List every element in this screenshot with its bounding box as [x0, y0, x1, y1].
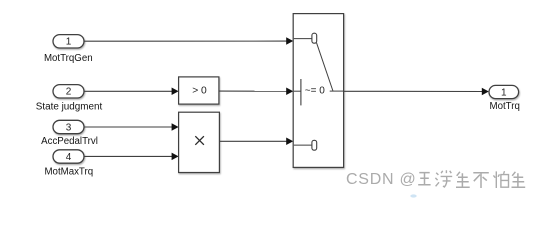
svg-text:CSDN @: CSDN @ — [346, 171, 417, 188]
switch input1 internal stub — [294, 33, 317, 43]
switch input3 internal stub — [294, 140, 317, 150]
watermark glyph fu (浮) — [435, 170, 452, 187]
inport 1 (MotTrqGen) — [53, 35, 84, 48]
svg-text:4: 4 — [66, 152, 72, 163]
svg-text:3: 3 — [66, 122, 72, 133]
wire switch to outport — [344, 88, 489, 96]
wire inport2 to compare block — [84, 88, 179, 96]
svg-text:1: 1 — [501, 87, 507, 98]
watermark glyph bu (不) — [473, 173, 489, 188]
watermark glyph sheng2 (生) — [512, 172, 526, 187]
wire inport1 to switch input1 — [84, 37, 293, 45]
svg-text:~= 0: ~= 0 — [305, 86, 325, 97]
watermark CSDN @ — [346, 171, 417, 188]
inport 3 (AccPedalTrvl) — [53, 120, 84, 133]
wire inport3 to product block — [84, 123, 179, 131]
cursor smudge — [410, 194, 416, 197]
switch output internal stub — [330, 90, 343, 92]
watermark glyph sheng (生) — [456, 172, 470, 187]
label MotTrqGen — [44, 53, 93, 64]
label AccPedalTrvl — [41, 136, 98, 147]
compare block U1 (> 0) — [179, 77, 219, 104]
watermark glyph pa (怕) — [493, 171, 508, 188]
svg-text:State judgment: State judgment — [36, 102, 103, 113]
wire inport4 to product block — [84, 153, 179, 161]
switch control stub and threshold bar — [294, 79, 301, 105]
outport 1 (MotTrq) — [489, 85, 519, 98]
switch lever — [317, 43, 334, 91]
svg-text:MotMaxTrq: MotMaxTrq — [44, 167, 93, 178]
product block U2 (x) — [179, 112, 220, 172]
svg-text:> 0: > 0 — [192, 86, 207, 97]
switch block U3 — [293, 14, 343, 168]
svg-text:MotTrqGen: MotTrqGen — [44, 53, 93, 64]
inport 2 (State judgment) — [53, 85, 84, 98]
svg-text:AccPedalTrvl: AccPedalTrvl — [41, 136, 98, 147]
wire compare block to switch control input — [219, 88, 293, 96]
switch criteria label ~= 0 — [305, 86, 325, 97]
watermark glyph wang (王) — [418, 173, 430, 185]
wire product block to switch input3 — [219, 138, 293, 146]
svg-text:2: 2 — [66, 87, 72, 98]
label MotTrq — [490, 101, 520, 112]
svg-text:1: 1 — [66, 37, 72, 48]
inport 4 (MotMaxTrq) — [53, 150, 84, 163]
label MotMaxTrq — [44, 167, 93, 178]
svg-text:MotTrq: MotTrq — [490, 101, 520, 112]
label State judgment — [36, 102, 103, 113]
